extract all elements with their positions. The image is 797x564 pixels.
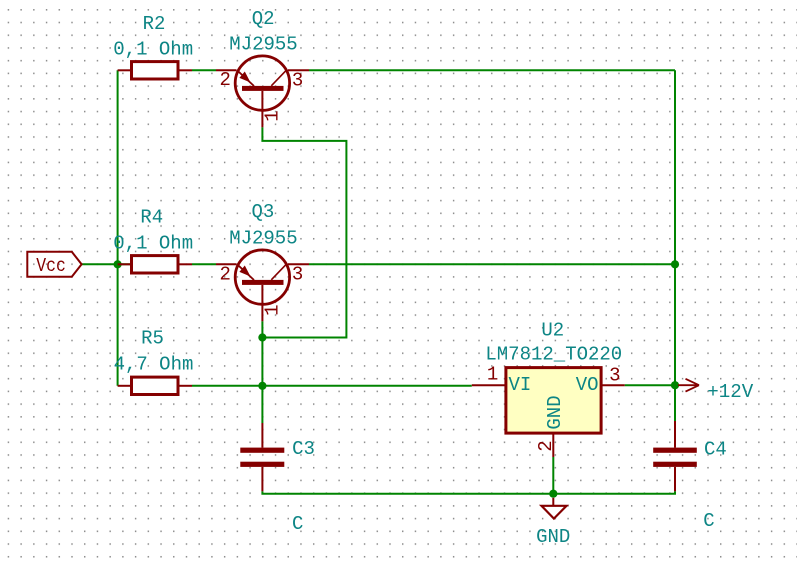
svg-text:GND: GND bbox=[536, 526, 570, 548]
svg-text:VO: VO bbox=[576, 374, 599, 396]
junction +12V node bbox=[671, 381, 679, 389]
regulator U2 LM7812_TO220 bbox=[472, 368, 625, 457]
wire +12V junction down to C4 bbox=[674, 385, 676, 421]
resistor R2 bbox=[118, 62, 192, 79]
junction right bus / Q3 collector row bbox=[671, 260, 679, 268]
junction Q3 base node bbox=[258, 333, 266, 341]
resistor R5 bbox=[118, 377, 192, 394]
svg-text:C: C bbox=[292, 513, 303, 535]
svg-text:C4: C4 bbox=[704, 438, 727, 460]
svg-text:MJ2955: MJ2955 bbox=[229, 228, 297, 250]
svg-text:VI: VI bbox=[509, 374, 532, 396]
capacitor C3 bbox=[240, 423, 284, 491]
transistor Q3 MJ2955 bbox=[216, 250, 309, 321]
svg-text:Vcc: Vcc bbox=[36, 255, 66, 277]
wire Q2 base link down to Q3 base junction bbox=[262, 127, 346, 337]
wire Q3 collector to right bus bbox=[309, 263, 675, 265]
wire R2 to Q2 emitter bbox=[192, 69, 216, 71]
wire R5 row to U2 VI bbox=[192, 385, 472, 387]
svg-text:2: 2 bbox=[219, 69, 230, 91]
svg-text:R2: R2 bbox=[143, 13, 166, 35]
wire U2 VO to +12V junction bbox=[625, 384, 675, 386]
svg-text:2: 2 bbox=[535, 440, 557, 451]
svg-text:1: 1 bbox=[261, 304, 283, 315]
svg-text:+12V: +12V bbox=[707, 381, 754, 403]
svg-text:GND: GND bbox=[544, 395, 566, 429]
svg-text:0,1 Ohm: 0,1 Ohm bbox=[113, 39, 193, 61]
resistor R4 bbox=[118, 256, 192, 273]
svg-text:3: 3 bbox=[292, 264, 303, 286]
wire right vertical bus x=675 bbox=[674, 70, 676, 385]
svg-text:LM7812_TO220: LM7812_TO220 bbox=[485, 344, 622, 366]
wire left vertical bus x=117.6 bbox=[117, 70, 119, 386]
hierarchical label +12V bbox=[678, 379, 754, 403]
power flag Vcc bbox=[27, 252, 81, 277]
svg-text:1: 1 bbox=[261, 110, 283, 121]
wire Q2 collector to right bus bbox=[309, 69, 675, 71]
svg-text:3: 3 bbox=[609, 364, 620, 386]
wire R4 to Q3 emitter bbox=[192, 263, 216, 265]
svg-text:3: 3 bbox=[292, 69, 303, 91]
svg-text:Q2: Q2 bbox=[252, 8, 275, 30]
wire Vcc to junction (net Vcc row) bbox=[82, 263, 130, 265]
svg-text:C3: C3 bbox=[292, 438, 315, 460]
junction Vcc/R2/R4 node bbox=[114, 260, 122, 268]
transistor Q2 MJ2955 bbox=[216, 56, 309, 127]
svg-text:U2: U2 bbox=[541, 320, 564, 342]
svg-text:MJ2955: MJ2955 bbox=[229, 33, 297, 55]
svg-text:C: C bbox=[703, 510, 714, 532]
svg-text:2: 2 bbox=[219, 263, 230, 285]
svg-text:R4: R4 bbox=[140, 206, 163, 228]
svg-text:1: 1 bbox=[487, 364, 498, 386]
svg-text:0,1 Ohm: 0,1 Ohm bbox=[113, 233, 193, 255]
junction R5 row / C3 branch bbox=[258, 382, 266, 390]
wire bottom rail C3 to C4 bbox=[262, 491, 675, 494]
wire U2 GND pin down to bottom wire bbox=[552, 457, 554, 494]
junction GND node bbox=[549, 490, 557, 498]
svg-text:Q3: Q3 bbox=[251, 201, 274, 223]
svg-text:4,7 Ohm: 4,7 Ohm bbox=[114, 354, 194, 376]
wire Q3 base down through R5 row to C3 bbox=[261, 321, 263, 423]
capacitor C4 bbox=[653, 421, 697, 491]
svg-text:R5: R5 bbox=[141, 327, 164, 349]
ground symbol GND bbox=[542, 498, 567, 519]
